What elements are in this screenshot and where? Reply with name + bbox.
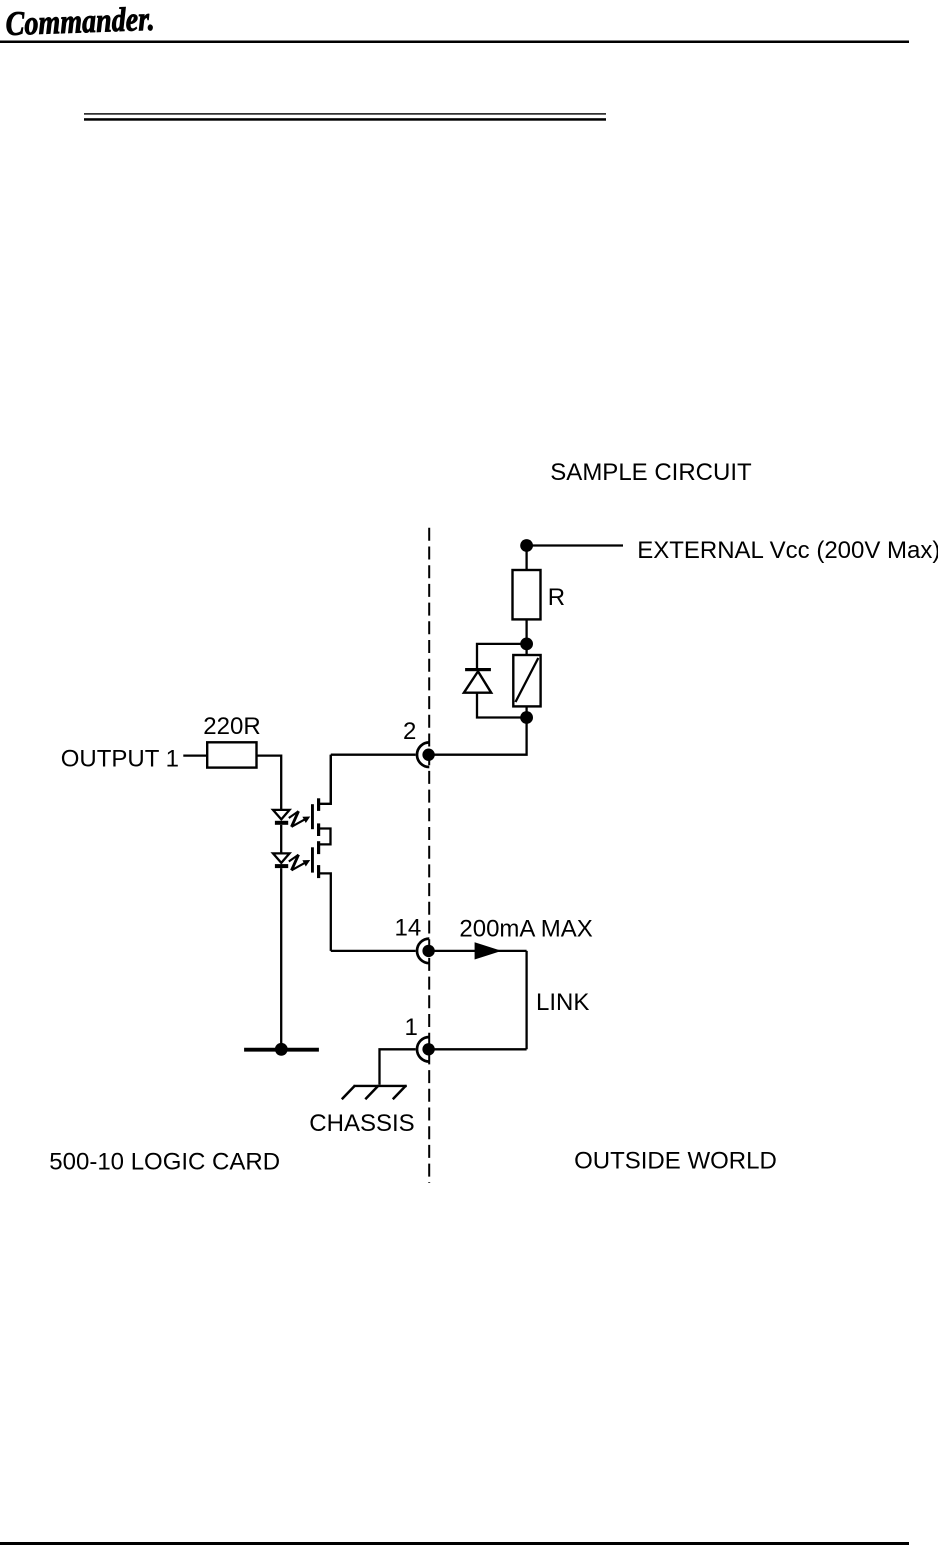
wire R to node A — [525, 619, 527, 644]
varistor RV1 diagonal — [516, 658, 539, 702]
MOSFET Q2 source stub — [317, 865, 320, 878]
svg-text:220R: 220R — [203, 713, 260, 740]
LED D2 light arrow — [289, 811, 310, 827]
current arrow — [475, 942, 502, 959]
wire diode bottom to node B — [477, 693, 527, 718]
svg-text:OUTSIDE WORLD: OUTSIDE WORLD — [574, 1148, 777, 1175]
LED D2 triangle — [273, 810, 290, 820]
terminal 1 arc — [417, 1037, 429, 1062]
wire terminal 14 right — [429, 950, 527, 952]
svg-text:500-10 LOGIC CARD: 500-10 LOGIC CARD — [49, 1149, 280, 1176]
svg-text:OUTPUT 1: OUTPUT 1 — [61, 746, 179, 773]
top rule — [0, 41, 909, 44]
terminal 2 arc — [417, 742, 429, 767]
chassis ground tick 1 — [342, 1086, 355, 1100]
terminal 14 dot — [422, 945, 434, 957]
terminal 14 arc — [417, 939, 429, 964]
LED D3 light arrow — [289, 855, 310, 871]
svg-text:1: 1 — [405, 1014, 418, 1041]
node B dot — [520, 711, 533, 724]
wire terminal 2 to drain — [331, 754, 416, 756]
bottom rule — [0, 1542, 909, 1545]
resistor R — [513, 570, 541, 619]
wire Q1 source to Q2 drain — [319, 829, 331, 845]
dashed boundary line — [428, 528, 430, 1183]
chassis ground bar — [354, 1085, 407, 1087]
MOSFET Q2 source lead — [319, 873, 331, 951]
LED D3 cathode bar — [275, 864, 288, 868]
chassis ground tick 2 — [365, 1086, 378, 1100]
resistor 220R — [207, 742, 256, 767]
logic 0V rail — [244, 1048, 319, 1052]
varistor RV1 body — [513, 655, 540, 706]
svg-text:14: 14 — [395, 915, 422, 942]
MOSFET Q1 drain stub — [317, 798, 320, 811]
LED D3 triangle — [273, 853, 290, 863]
diode D1 cathode bar — [465, 668, 491, 671]
terminal 2 dot — [422, 749, 434, 761]
node A dot — [520, 638, 533, 651]
wire LED D3 to 0V rail — [280, 868, 282, 1049]
diode D1 triangle — [464, 671, 491, 692]
svg-text:R: R — [548, 584, 565, 611]
svg-text:Commander.: Commander. — [5, 1, 155, 43]
svg-text:CHASSIS: CHASSIS — [309, 1110, 414, 1137]
wire RV1 to node B — [525, 706, 527, 717]
terminal 1 dot — [422, 1043, 434, 1055]
svg-text:200mA MAX: 200mA MAX — [459, 916, 592, 943]
wire node B to terminal 2 — [434, 718, 527, 755]
wire Vcc horizontal — [527, 544, 623, 546]
MOSFET Q2 drain stub — [317, 841, 320, 854]
wire terminal 1 to chassis — [380, 1049, 416, 1084]
wire node A to RV1 — [525, 644, 527, 655]
node Vcc dot — [520, 539, 533, 552]
LED D2 cathode bar — [275, 821, 288, 825]
svg-text:SAMPLE CIRCUIT: SAMPLE CIRCUIT — [550, 459, 752, 486]
wire drain vertical — [330, 755, 332, 804]
svg-text:LINK: LINK — [536, 989, 589, 1016]
MOSFET Q2 gate bar — [311, 847, 314, 872]
wire node A to diode branch top — [477, 644, 527, 668]
MOSFET Q1 gate bar — [311, 804, 314, 829]
wire Vcc to R — [525, 546, 527, 571]
wire LINK vertical — [525, 951, 527, 1049]
wire output lead — [183, 754, 207, 756]
heading double rule — [84, 113, 606, 114]
wire bottom to terminal 1 — [429, 1048, 527, 1050]
MOSFET Q1 drain lead — [319, 755, 331, 804]
svg-text:2: 2 — [403, 718, 416, 745]
svg-text:EXTERNAL Vcc (200V Max): EXTERNAL Vcc (200V Max) — [637, 537, 938, 564]
wire 220R to LED chain — [257, 756, 282, 809]
chassis ground tick 3 — [393, 1086, 406, 1100]
wire to terminal 14 — [331, 950, 416, 952]
MOSFET Q1 source stub — [317, 823, 320, 836]
logic 0V node dot — [275, 1043, 288, 1056]
wire LED D2 to LED D3 — [280, 825, 282, 853]
